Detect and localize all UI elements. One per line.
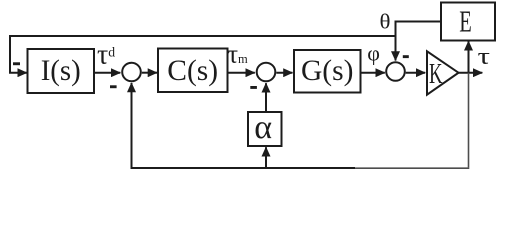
wire: branch from tau line down to bottom feedback: [468, 73, 470, 168]
wire: E output to node theta and down into S3: [396, 22, 442, 61]
block alpha: [248, 109, 282, 146]
wire: outer feedback from node theta to I(s) input: [10, 36, 396, 73]
wire: K output to tau arrow: [459, 72, 483, 74]
wire: bottom branch up into S1: [131, 83, 133, 168]
wire: bottom branch up into alpha: [265, 147, 267, 168]
block G(s): [294, 50, 361, 93]
wire: G(s) output to summing junction 3: [361, 72, 385, 74]
minus sign at S2 lower input: [250, 86, 257, 89]
svg-text:E: E: [459, 4, 472, 39]
svg-text:τm: τm: [228, 39, 248, 68]
gain K (triangle): [427, 51, 459, 94]
minus sign at S1 lower input: [110, 85, 117, 88]
wire: S3 output to gain K: [406, 72, 426, 74]
summing junction S3: [386, 62, 405, 81]
svg-text:G(s): G(s): [301, 55, 353, 87]
block C(s): [158, 49, 228, 93]
svg-text:K: K: [429, 59, 443, 90]
svg-text:I(s): I(s): [41, 55, 81, 87]
block E: [441, 3, 495, 41]
svg-text:C(s): C(s): [167, 55, 218, 87]
wire: C(s) output to summing junction 2: [228, 72, 255, 74]
block I(s): [28, 49, 95, 93]
wire: branch from tau line up into E: [468, 41, 470, 72]
wire: bottom feedback run (right, gray part): [355, 167, 469, 169]
wire: S2 output to G(s): [276, 72, 292, 74]
svg-text:α: α: [254, 109, 272, 146]
svg-text:φ: φ: [367, 41, 380, 66]
summing junction S2: [257, 63, 276, 82]
minus sign at I(s) input: [13, 62, 20, 65]
svg-text:θ: θ: [380, 10, 391, 34]
wire: S1 output to C(s): [142, 72, 157, 74]
minus sign at S3 upper input: [403, 55, 409, 58]
summing junction S1: [122, 63, 141, 82]
svg-text:τ: τ: [478, 44, 491, 70]
svg-text:τd: τd: [97, 40, 115, 71]
wire: alpha output up into S2: [265, 83, 267, 112]
wire: bottom feedback run (left, dark part): [131, 167, 356, 169]
wire: I(s) output to summing junction 1: [94, 72, 120, 74]
